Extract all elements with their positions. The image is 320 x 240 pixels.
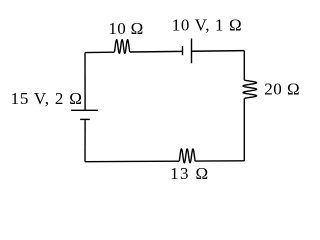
wire: left vertical lower segment bbox=[84, 119, 86, 161]
wire: bottom-left horizontal segment bbox=[85, 160, 179, 163]
svg-text:10 Ω: 10 Ω bbox=[108, 19, 143, 38]
battery cell 10 V: short plate (negative) bbox=[182, 46, 184, 55]
battery cell 15 V: long plate (positive) bbox=[71, 109, 98, 111]
battery cell 10 V: long plate (positive) bbox=[191, 38, 193, 63]
wire: top middle segment (resistor to battery) bbox=[130, 50, 183, 53]
resistor 20 ohm bbox=[243, 80, 257, 98]
svg-text:15 V, 2 Ω: 15 V, 2 Ω bbox=[11, 89, 83, 108]
wire: right vertical upper segment bbox=[243, 51, 245, 80]
wire: top-right horizontal segment bbox=[192, 50, 245, 53]
wire: bottom-right horizontal segment bbox=[195, 160, 244, 162]
resistor 10 ohm bbox=[114, 40, 129, 54]
svg-text:13 Ω: 13 Ω bbox=[170, 164, 209, 183]
svg-text:10 V, 1 Ω: 10 V, 1 Ω bbox=[172, 16, 242, 35]
battery cell 15 V: short plate (negative) bbox=[80, 118, 90, 120]
svg-text:20 Ω: 20 Ω bbox=[264, 79, 300, 98]
resistor 13 ohm bbox=[179, 149, 195, 163]
wire: right vertical lower segment bbox=[243, 98, 245, 160]
wire: left vertical upper segment bbox=[84, 53, 86, 111]
wire: top-left horizontal segment bbox=[85, 51, 114, 53]
